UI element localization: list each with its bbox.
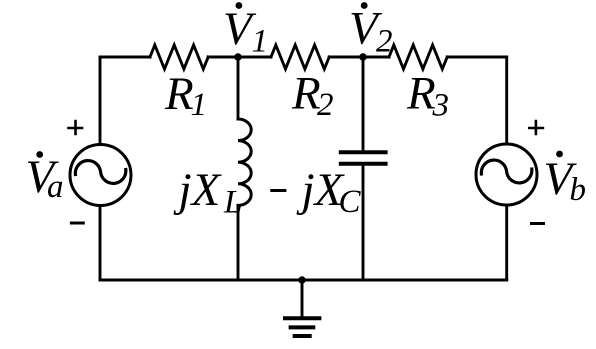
dot diacritic of Vb [556,151,563,158]
dot diacritic of V2 [361,2,368,9]
wire top rail left segment [100,56,150,59]
inductor jXL coil [238,119,251,205]
source Va circle [70,145,131,206]
node V2 junction dot [359,53,367,61]
source Vb sine symbol [481,160,532,183]
resistor R3 [389,45,447,69]
wire inductor to bottom rail [237,205,240,280]
minus sign of Va [70,222,85,225]
wire bottom rail [100,279,507,282]
dot diacritic of Va [36,151,43,158]
svg-text:b: b [570,172,587,208]
ground node junction dot [298,276,305,283]
svg-text:a: a [47,169,64,205]
svg-text:R: R [406,68,436,120]
svg-text:1: 1 [191,87,208,123]
wire R2 to node V2 [329,56,363,59]
wire left vertical bottom [99,206,102,281]
plus sign of Va [67,120,83,136]
wire R1 to node V1 [208,56,238,59]
wire right vertical top [505,57,508,144]
resistor R1 [150,45,208,69]
svg-text:1: 1 [252,24,269,60]
wire capacitor to bottom rail [362,166,365,280]
ground stem [301,280,304,318]
ground bar 3 [293,334,312,338]
ground bar 1 [283,316,321,320]
svg-text:3: 3 [432,88,450,124]
minus sign of -jXC label [270,189,286,192]
wire R3 to top-right corner [447,56,507,59]
wire right vertical bottom [505,205,508,280]
capacitor -jXC top plate [339,150,388,154]
resistor R2 [271,45,329,69]
minus sign of Vb [530,222,545,225]
svg-text:L: L [223,184,242,220]
wire node V1 to R2 [238,56,271,59]
wire node V1 down to inductor [237,57,240,119]
svg-text:C: C [339,184,362,220]
source Vb circle [476,144,537,205]
ground bar 2 [289,325,316,329]
source Va sine symbol [75,161,126,184]
dot diacritic of V1 [236,2,243,9]
wire node V2 to R3 [363,56,389,59]
capacitor -jXC bottom plate [339,162,388,166]
svg-text:jX: jX [173,164,223,216]
node V1 junction dot [234,53,242,61]
svg-text:2: 2 [317,87,334,123]
wire node V2 down to capacitor [362,57,365,150]
plus sign of Vb [528,120,544,136]
svg-text:R: R [164,68,194,120]
wire left vertical top [99,57,102,145]
svg-text:2: 2 [376,24,393,60]
